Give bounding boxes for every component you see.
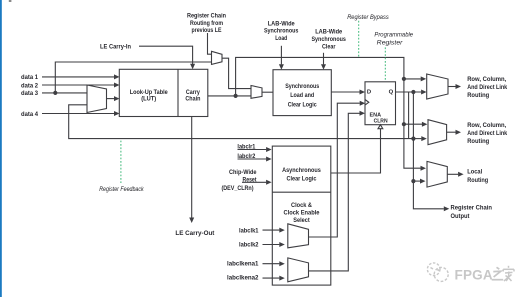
- svg-text:labclkena1: labclkena1: [227, 260, 259, 267]
- svg-text:And Direct Link: And Direct Link: [467, 130, 507, 137]
- label programmable register: [374, 32, 413, 47]
- mux M1 (register chain select): [212, 51, 223, 64]
- wire Q branch to mux M5: [413, 179, 425, 184]
- wire LAB-wide synchronous load: [279, 46, 284, 70]
- wire data1: [42, 74, 120, 79]
- svg-text:LE Carry-In: LE Carry-In: [100, 44, 131, 51]
- svg-text:Clear: Clear: [322, 44, 336, 51]
- wire register feedback (Q to input mux MA): [69, 105, 414, 139]
- mux M6 (clock select): [288, 224, 309, 248]
- label chip-wide reset (DEV_CLRn): [222, 169, 258, 192]
- svg-text:Clock &: Clock &: [291, 202, 312, 209]
- wire mux M5 output: [447, 172, 463, 177]
- svg-text:Output: Output: [451, 213, 471, 220]
- mux MA (LUT input select): [87, 85, 107, 113]
- divider LUT / carry chain: [177, 69, 179, 116]
- watermark logo: [427, 263, 448, 281]
- label register chain output: [451, 205, 493, 220]
- svg-text:labclr2: labclr2: [237, 153, 255, 160]
- svg-text:Register Chain: Register Chain: [187, 13, 226, 20]
- flip-flop U1: [365, 82, 396, 125]
- svg-text:Clock Enable: Clock Enable: [284, 210, 320, 217]
- wire bypass branch to mux M3: [404, 76, 426, 81]
- svg-text:Row, Column,: Row, Column,: [467, 76, 506, 83]
- svg-text:Synchronous: Synchronous: [311, 36, 346, 43]
- node Q to mux M5: [411, 179, 415, 183]
- svg-text:Reset: Reset: [243, 176, 258, 183]
- svg-text:LE Carry-Out: LE Carry-Out: [175, 230, 215, 237]
- label LAB-wide synchronous load: [264, 20, 299, 42]
- svg-text:Chip-Wide: Chip-Wide: [229, 169, 257, 176]
- wire clock enable to ENA: [309, 111, 366, 271]
- svg-text:(DEV_CLRn): (DEV_CLRn): [222, 185, 254, 192]
- wire labclr1: [238, 147, 272, 152]
- wire labclr2: [238, 157, 272, 162]
- wire LAB-wide synchronous clear: [321, 53, 326, 70]
- wire clock to flip-flop: [309, 101, 366, 237]
- wire mux M2 output: [262, 91, 273, 93]
- svg-text:Clear Logic: Clear Logic: [287, 175, 317, 182]
- node LUT output junction: [234, 94, 238, 98]
- svg-text:Load: Load: [275, 35, 287, 42]
- label local routing: [467, 168, 488, 184]
- svg-text:Routing: Routing: [467, 92, 489, 99]
- wire LE carry-in: [139, 46, 195, 69]
- box synchronous load and clear logic: [273, 70, 331, 116]
- svg-text:Q: Q: [389, 89, 394, 95]
- wire data3: [42, 92, 87, 94]
- node bypass to mux M4: [402, 122, 406, 126]
- svg-text:Register Bypass: Register Bypass: [347, 14, 389, 21]
- svg-text:Asynchronous: Asynchronous: [282, 167, 321, 174]
- label synchronous load and clear logic: [285, 83, 319, 108]
- node Q to mux M4 / feedback: [411, 137, 415, 141]
- svg-text:labclk1: labclk1: [239, 227, 259, 234]
- svg-text:Row, Column,: Row, Column,: [467, 122, 506, 129]
- label row column direct link routing 2: [467, 122, 507, 145]
- svg-text:Synchronous: Synchronous: [264, 28, 299, 35]
- svg-text:Register Chain: Register Chain: [451, 205, 493, 212]
- svg-text:Load and: Load and: [290, 92, 314, 99]
- top edge artifact mark: [9, 0, 12, 2]
- wire Q branch to mux M4: [413, 136, 426, 141]
- svg-text:LAB-Wide: LAB-Wide: [268, 20, 295, 27]
- svg-text:Chain: Chain: [185, 96, 200, 103]
- node data3 tap junction: [53, 91, 57, 95]
- svg-text:data 3: data 3: [21, 90, 38, 97]
- callout register feedback dotted line: [120, 141, 122, 183]
- wire data4: [42, 111, 120, 116]
- svg-text:Select: Select: [293, 217, 310, 224]
- CLRN input triangle: [378, 125, 383, 129]
- node bypass to mux M3: [402, 77, 406, 81]
- svg-text:data 1: data 1: [21, 74, 38, 81]
- node Q output drop: [411, 90, 415, 94]
- svg-text:Routing from: Routing from: [190, 20, 223, 27]
- label carry chain: [185, 89, 200, 103]
- watermark text jia (家): [503, 266, 514, 281]
- wire LE carry-out: [189, 117, 194, 224]
- label row column direct link routing 1: [467, 76, 507, 99]
- wire Q output: [396, 90, 427, 95]
- clock wedge of flip-flop: [365, 100, 369, 106]
- wire labclk2: [263, 242, 285, 247]
- svg-text:Routing: Routing: [467, 138, 489, 145]
- wire chip-wide reset: [242, 180, 272, 185]
- svg-text:(LUT): (LUT): [141, 96, 156, 103]
- mux M7 (clock enable select): [288, 258, 309, 282]
- watermark text zhi (之): [492, 267, 504, 279]
- wire register chain routing input: [208, 33, 212, 54]
- wire mux M1 output to mux M2: [222, 58, 251, 88]
- svg-text:CLRN: CLRN: [374, 119, 388, 125]
- wire register bypass: [236, 57, 426, 170]
- mux M2 (LUT/packed select): [251, 86, 262, 99]
- svg-text:Register Feedback: Register Feedback: [99, 186, 144, 193]
- mux M5 (local routing): [427, 161, 447, 187]
- svg-text:LAB-Wide: LAB-Wide: [315, 29, 342, 36]
- svg-text:labclk2: labclk2: [239, 242, 259, 249]
- wire labclkena2: [263, 276, 285, 281]
- svg-text:data 2: data 2: [21, 82, 38, 89]
- wire Q to feedback link: [408, 92, 410, 139]
- divider async clear / clock select: [272, 191, 331, 193]
- callout programmable register dotted line: [384, 47, 386, 81]
- svg-text:And Direct Link: And Direct Link: [467, 84, 507, 91]
- label register chain routing from previous LE: [187, 13, 226, 34]
- svg-text:labclr1: labclr1: [237, 143, 255, 150]
- wire data3 packed-register tap to mux M1: [55, 62, 211, 93]
- border left blue edge: [0, 0, 2, 297]
- wire carry chain output to mux M2: [208, 95, 251, 97]
- svg-text:D: D: [367, 89, 371, 95]
- label look-up table (LUT): [130, 89, 168, 103]
- label LAB-wide synchronous clear: [311, 29, 346, 51]
- svg-text:Routing: Routing: [467, 177, 488, 184]
- LUT / carry chain box: [119, 69, 208, 116]
- wire data2: [42, 83, 120, 88]
- svg-text:data 4: data 4: [21, 111, 38, 118]
- wire mux MA output to LUT: [107, 96, 120, 101]
- wire labclkena1: [263, 261, 285, 266]
- wire Q vertical to register chain output: [413, 92, 449, 211]
- svg-text:labclkena2: labclkena2: [227, 274, 259, 281]
- wire bypass branch to mux M4: [404, 122, 428, 127]
- svg-text:ENA: ENA: [370, 113, 382, 119]
- svg-text:Synchronous: Synchronous: [285, 83, 319, 90]
- wire async clear to CLRN: [331, 129, 381, 173]
- wire mux M3 output: [448, 84, 461, 89]
- svg-text:Programmable: Programmable: [374, 32, 413, 39]
- label asynchronous clear logic: [282, 167, 321, 182]
- svg-text:Clear Logic: Clear Logic: [288, 101, 317, 108]
- label clock and clock enable select: [284, 202, 320, 224]
- wire mux M4 output: [447, 130, 461, 135]
- svg-text:FPGA: FPGA: [455, 268, 493, 283]
- svg-text:Register: Register: [377, 40, 404, 47]
- wire labclk1: [263, 228, 285, 233]
- mux M4 (row column direct link 2): [428, 120, 447, 145]
- wire sync logic to D input: [331, 90, 365, 95]
- mux M3 (row column direct link 1): [427, 74, 448, 99]
- box asynchronous clear / clock enable select: [272, 146, 331, 285]
- callout register bypass dotted line: [358, 21, 360, 57]
- svg-text:previous LE: previous LE: [192, 27, 222, 34]
- svg-text:Local: Local: [467, 168, 482, 175]
